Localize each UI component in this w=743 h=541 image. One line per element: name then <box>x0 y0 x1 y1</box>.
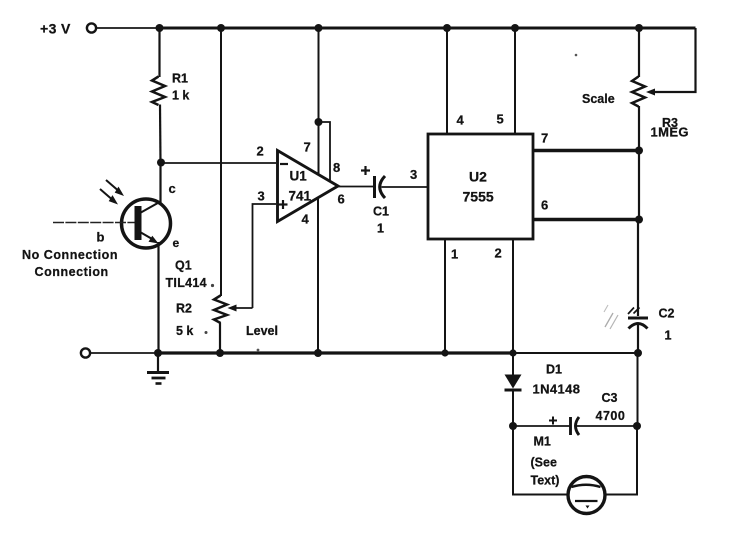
U2 bottom pin labels <box>451 246 502 262</box>
U2 top pin labels <box>457 112 504 128</box>
wire: U2 pin 7 to R3 column <box>533 149 639 152</box>
svg-text:7: 7 <box>304 140 311 155</box>
light arrow 1 into Q1 <box>106 180 124 196</box>
label D1 area labels done above; speck artifacts <box>205 54 578 352</box>
label Q1 <box>166 259 207 291</box>
svg-text:C1: C1 <box>373 205 389 219</box>
svg-text:7: 7 <box>541 131 548 146</box>
svg-text:+3 V: +3 V <box>40 21 71 37</box>
svg-text:U2: U2 <box>469 169 487 185</box>
ground <box>147 353 169 384</box>
junction: collector node <box>157 159 165 167</box>
junction: pin7 wire / R3 column <box>635 147 643 155</box>
+3V supply label <box>40 21 71 37</box>
svg-text:1 k: 1 k <box>172 89 189 103</box>
U2 right pin labels <box>541 131 548 213</box>
junction: D1 / C3 / M1 node <box>509 422 517 430</box>
svg-text:R1: R1 <box>172 72 188 86</box>
junction: pin6 wire / R3 column <box>635 216 643 224</box>
wire: collector node down into Q1 <box>159 163 161 203</box>
wire: right leg down to meter <box>606 426 637 495</box>
Q1 collector stroke <box>140 202 161 214</box>
wire: top supply rail <box>157 27 696 30</box>
light arrow 2 into Q1 <box>100 189 118 205</box>
svg-text:C2: C2 <box>659 307 675 321</box>
wire: R2 column from top rail <box>220 28 222 296</box>
junction: bottom rail / U2 pin1 <box>441 349 448 356</box>
junction: top rail / U2 pin5 column <box>511 24 519 32</box>
wire: U2 pin 2 to bottom rail <box>512 239 514 353</box>
capacitor C3 <box>571 391 626 435</box>
wire: Q1 emitter to bottom rail <box>157 242 159 353</box>
wire: pin6 node down to C2 <box>637 220 639 317</box>
U1 minus input mark <box>280 163 288 165</box>
wire: R3 top lead <box>638 28 640 77</box>
svg-text:Scale: Scale <box>582 92 615 106</box>
capacitor C1 <box>373 176 389 236</box>
junction: top rail / R2 column <box>217 24 225 32</box>
wire: R3 column between pin7 and pin6 nodes <box>638 151 640 220</box>
wire: D1 top lead <box>512 353 514 375</box>
wire: bottom rail right section <box>513 352 638 354</box>
svg-text:R2: R2 <box>176 302 192 316</box>
svg-text:U1: U1 <box>290 169 308 184</box>
label Scale <box>582 92 615 106</box>
R3 wiper arrow <box>646 89 655 96</box>
junction: bottom rail / U2 pin2 / D1 <box>509 349 516 356</box>
wire: left leg down to meter <box>513 426 568 495</box>
junction: pin7/pin8 node <box>315 118 323 126</box>
wire: U1 output to C1 <box>338 186 374 188</box>
bottom rail terminal <box>81 348 90 357</box>
svg-text:741: 741 <box>289 189 312 204</box>
svg-text:7555: 7555 <box>463 189 494 205</box>
svg-text:Q1: Q1 <box>175 259 192 273</box>
label c <box>169 181 176 196</box>
R2 wiper arrow <box>228 305 253 312</box>
wire: collector node to U1 pin 2 <box>161 162 276 164</box>
wire: U2 pin 4 from top rail <box>446 28 448 134</box>
wire: U2 pin 5 from top rail <box>514 28 516 134</box>
wire: pin 7 lead <box>318 122 320 175</box>
svg-text:1: 1 <box>665 329 672 343</box>
resistor R2 (potentiometer) <box>176 296 227 339</box>
svg-text:(See: (See <box>531 456 557 470</box>
svg-text:M1: M1 <box>534 435 551 449</box>
label M1 (See Text) <box>531 435 560 488</box>
op-amp U1 <box>278 151 339 222</box>
svg-text:TIL414: TIL414 <box>166 276 207 290</box>
label U2 pin 3 <box>410 167 417 182</box>
svg-text:b: b <box>97 230 105 245</box>
wire: R2 bottom lead <box>219 323 221 354</box>
wire: R3 bottom lead <box>638 106 640 151</box>
junction: top rail / U2 pin4 column <box>443 24 451 32</box>
wire: U1 pin 4 to bottom rail <box>317 197 319 353</box>
wire: C3 to right column <box>577 425 638 427</box>
svg-text:Connection: Connection <box>35 265 109 279</box>
svg-text:1: 1 <box>451 247 458 262</box>
junction: bottom rail / C2 column <box>634 349 642 357</box>
svg-text:D1: D1 <box>546 363 562 377</box>
svg-text:8: 8 <box>333 160 340 175</box>
svg-text:5: 5 <box>497 112 504 127</box>
svg-text:1N4148: 1N4148 <box>533 382 581 397</box>
wire: node to C3 <box>513 425 570 427</box>
Q1 base bar <box>135 206 142 240</box>
label Level <box>246 324 278 338</box>
wire: R1 bottom lead to collector node <box>159 105 162 164</box>
svg-text:6: 6 <box>338 192 345 207</box>
junction: top rail / R1 <box>156 24 164 32</box>
wire: C1 to U2 pin 3 <box>382 186 429 188</box>
diode D1 <box>505 363 581 397</box>
wire: D1 bottom lead <box>512 390 514 426</box>
svg-text:4: 4 <box>302 212 310 227</box>
svg-text:2: 2 <box>495 246 502 261</box>
label e <box>173 236 180 250</box>
C1 plus mark <box>361 166 370 175</box>
svg-text:4: 4 <box>457 113 465 128</box>
svg-text:1: 1 <box>377 222 384 236</box>
IC U2 7555 <box>428 134 533 239</box>
svg-text:C3: C3 <box>602 391 618 405</box>
svg-text:1MEG: 1MEG <box>651 125 689 140</box>
wire: top rail to U1 pin7 node <box>318 28 320 122</box>
wire: R1 top lead <box>158 28 160 77</box>
svg-text:5 k: 5 k <box>176 324 193 338</box>
wire: U2 pin 1 to bottom rail <box>444 239 446 353</box>
junction: top rail / U1 pin7 column <box>315 24 323 32</box>
svg-text:No Connection: No Connection <box>22 248 118 262</box>
label b <box>97 230 105 245</box>
wire: U2 pin 6 to R3 column <box>533 218 639 221</box>
C3 plus mark <box>549 417 557 425</box>
transistor Q1 circle <box>122 199 171 248</box>
+3V terminal <box>87 23 96 32</box>
U1 plus input mark <box>279 200 288 209</box>
Q1 emitter stroke with arrow <box>140 232 159 244</box>
svg-text:Text): Text) <box>531 474 560 488</box>
wire: bottom ground rail <box>157 351 514 354</box>
wire: R3 wiper branch from top rail <box>654 28 696 92</box>
wire: C2 to bottom rail node <box>637 324 639 353</box>
wire: Q1 base lead (no connection) <box>53 222 135 224</box>
junction: C3 / right column <box>633 422 641 430</box>
svg-text:3: 3 <box>258 189 265 204</box>
pencil scribble artifact <box>604 305 618 329</box>
wire: pin 8 branch <box>319 122 331 181</box>
svg-text:3: 3 <box>410 167 417 182</box>
U1 pin labels <box>257 140 345 227</box>
wire: terminal to bottom rail <box>91 352 159 354</box>
svg-text:c: c <box>169 181 176 196</box>
svg-text:e: e <box>173 236 180 250</box>
resistor R1 <box>152 72 189 106</box>
svg-text:Level: Level <box>246 324 278 338</box>
meter M1 <box>568 477 605 514</box>
resistor R3 (rheostat) <box>632 77 689 140</box>
svg-text:2: 2 <box>257 144 264 159</box>
wire: C2 node down to C3 node <box>637 353 639 426</box>
capacitor C2 <box>628 307 675 343</box>
junction: bottom rail / R2 <box>216 349 224 357</box>
svg-text:6: 6 <box>541 198 548 213</box>
wire: wiper to U1 pin 3 <box>253 204 277 308</box>
label No Connection <box>22 248 118 279</box>
junction: bottom rail / emitter <box>154 349 162 357</box>
wire: terminal to top rail <box>97 27 159 29</box>
junction: top rail / R3 <box>635 24 643 32</box>
junction: bottom rail / U1 pin4 <box>314 349 322 357</box>
svg-text:4700: 4700 <box>596 409 626 423</box>
